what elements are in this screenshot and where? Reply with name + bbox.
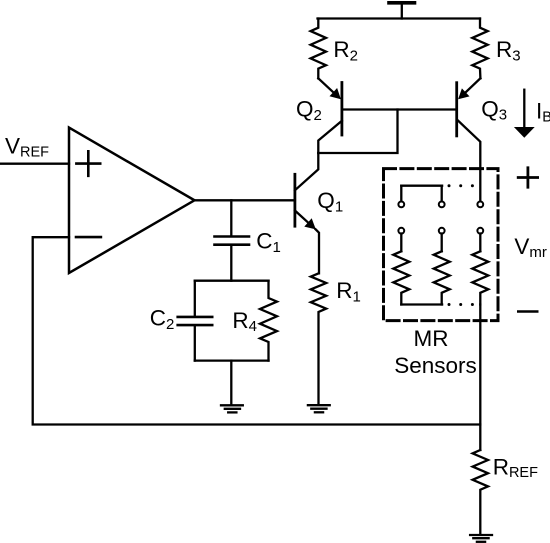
wire: Q1 emitter diagonal — [295, 211, 309, 223]
dots: MR bottom bus continuation — [448, 303, 474, 306]
label RREF — [493, 455, 538, 482]
wire: Q2 collector diagonal — [318, 121, 342, 153]
resistor R2 — [311, 19, 326, 79]
transistor Q1 bar — [293, 174, 296, 226]
label R1 — [336, 278, 361, 305]
wire: R3 emitter diagonal into Q3 — [465, 78, 481, 93]
wire: C2/R4 bottom bus — [195, 359, 269, 361]
wire: R2 emitter diagonal into Q2 — [318, 78, 334, 93]
wire: collector drop to Q1 — [295, 153, 318, 190]
wire: MR top stub mid — [441, 186, 443, 202]
label Q1 — [317, 188, 343, 215]
wire: MR right column down to feedback node — [479, 305, 481, 425]
label R3 — [496, 37, 521, 64]
MR sensors dashed box — [384, 169, 499, 321]
wire: MR left column — [400, 234, 402, 252]
op-amp U1 — [69, 128, 195, 273]
capacitor C1 — [215, 200, 250, 280]
MR sensor resistor mid — [434, 251, 450, 304]
ground under R1 — [308, 405, 330, 412]
MR sensor resistor right — [472, 251, 488, 304]
label C2 — [150, 306, 175, 333]
current arrow IB — [514, 90, 535, 138]
resistor RREF — [473, 450, 488, 534]
transistor Q3 bar — [455, 83, 458, 136]
op-amp plus input symbol — [76, 151, 100, 176]
wire: MR bottom bus solid — [401, 303, 442, 305]
arrowhead Q1 emitter — [304, 218, 316, 229]
ground under RREF — [470, 535, 492, 542]
resistor R1 — [311, 273, 326, 404]
supply rail top bar — [389, 3, 415, 19]
wire: MR right column — [479, 234, 481, 252]
label VREF — [5, 133, 49, 160]
label minus Vmr — [517, 310, 539, 313]
wire: VREF input — [0, 163, 69, 165]
wire: common base rail Q2-Q3 — [342, 108, 457, 110]
wire: MR mid column — [441, 234, 443, 252]
label Q2 — [296, 97, 322, 124]
svg-text:MR: MR — [414, 326, 449, 351]
wire: C2/R4 top bus — [195, 280, 269, 282]
wire: MR top stub left — [400, 186, 402, 202]
label R2 — [333, 37, 358, 64]
op-amp minus input symbol — [76, 236, 101, 239]
terminal circles second row — [398, 228, 483, 234]
arrowhead into Q3 emitter — [458, 88, 469, 99]
label Q3 — [481, 97, 507, 124]
dots: MR top bus continuation — [448, 184, 474, 187]
svg-text:Sensors: Sensors — [394, 353, 477, 378]
wire: Q1 emitter to R1 — [316, 229, 320, 273]
wire: bottom bus to ground — [230, 361, 232, 404]
wire: Q2 base-collector tie loop — [318, 110, 397, 154]
arrowhead into Q2 emitter — [330, 88, 341, 99]
label plus Vmr — [517, 166, 539, 188]
wire: node to RREF — [479, 425, 481, 451]
terminal circles top row — [398, 202, 483, 208]
resistor R3 — [472, 19, 487, 79]
label MR Sensors — [394, 326, 477, 378]
capacitor C2 — [178, 281, 213, 361]
wire: MR top bus solid — [401, 185, 442, 187]
transistor Q2 bar — [340, 83, 343, 136]
label C1 — [256, 229, 281, 256]
wire: Q3 collector diagonal down to MR string — [458, 121, 480, 202]
wire: top rail — [318, 17, 481, 19]
ground under C2/R4 — [221, 405, 243, 412]
wire: op-amp output to Q1 base — [195, 199, 295, 201]
label R4 — [232, 308, 257, 335]
label Vmr — [514, 234, 547, 261]
wire: inverting input feedback — [33, 237, 481, 424]
resistor R4 — [260, 281, 277, 361]
label IB — [536, 99, 550, 126]
MR sensor resistor left — [393, 251, 409, 304]
